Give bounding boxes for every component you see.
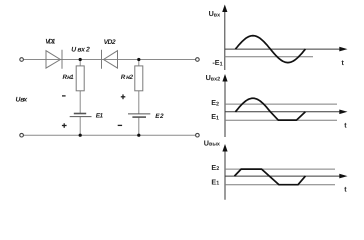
svg-text:R н2: R н2 [121, 74, 134, 81]
svg-text:Uвых: Uвых [204, 138, 220, 147]
svg-text:t: t [342, 60, 345, 67]
svg-text:VD1: VD1 [45, 39, 55, 46]
svg-text:R н1: R н1 [63, 74, 75, 81]
svg-text:t: t [344, 122, 347, 129]
svg-text:t: t [344, 186, 347, 193]
svg-text:E2: E2 [155, 113, 164, 120]
svg-text:VD2: VD2 [104, 39, 116, 46]
svg-text:-E1: -E1 [212, 58, 222, 67]
svg-text:E2: E2 [211, 98, 219, 107]
svg-text:E1: E1 [211, 112, 219, 121]
svg-text:Uвх2: Uвх2 [206, 73, 221, 82]
svg-text:U вх 2: U вх 2 [71, 46, 90, 53]
svg-text:E1: E1 [96, 112, 104, 119]
svg-text:Uвх: Uвх [209, 9, 221, 18]
svg-text:E1: E1 [211, 177, 219, 186]
svg-text:E2: E2 [211, 163, 219, 172]
svg-text:U вх: U вх [16, 96, 29, 103]
